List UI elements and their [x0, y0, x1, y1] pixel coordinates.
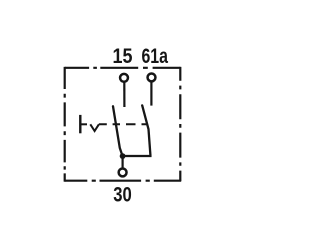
- detent (latching V) symbol: [90, 124, 99, 131]
- enclosure border bottom side: [64, 180, 181, 182]
- wire stub from terminal 15: [123, 82, 125, 107]
- enclosure border right side: [179, 67, 181, 181]
- mechanical link dashed line to switch arms: [99, 123, 148, 125]
- switch arm (pole 61a) with connecting link to node: [124, 105, 150, 156]
- switch arm (pole 15): [113, 106, 122, 155]
- wire from junction to terminal 30: [121, 156, 123, 168]
- junction node: [120, 153, 126, 159]
- terminal circle 15: [120, 74, 128, 82]
- terminal circle 30: [119, 168, 127, 176]
- enclosure border (dash-dot box) top side: [65, 67, 181, 69]
- svg-text:30: 30: [113, 182, 132, 206]
- wire stub from terminal 61a: [150, 82, 152, 106]
- terminal circle 61a: [148, 73, 156, 81]
- svg-text:15: 15: [113, 44, 133, 68]
- enclosure border left side: [64, 67, 66, 182]
- mechanical actuator bar: [79, 115, 81, 133]
- mechanical link dash from actuator: [80, 123, 87, 125]
- svg-text:61a: 61a: [141, 44, 168, 68]
